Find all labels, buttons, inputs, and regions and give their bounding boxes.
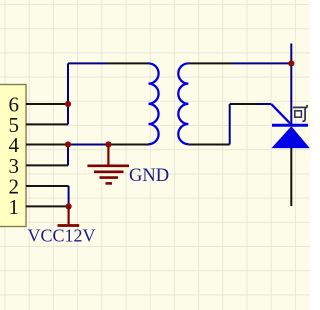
ground symbol bar 3 xyxy=(100,176,119,179)
wire anode vertical top xyxy=(290,44,292,126)
thyristor Q1 cathode bar xyxy=(272,124,308,127)
annotation text 可 (drawn strokes) xyxy=(293,105,307,122)
svg-text:GND: GND xyxy=(129,166,169,186)
junction dot pin1 xyxy=(66,203,72,209)
transformer T1 primary winding xyxy=(149,63,159,144)
transformer T1 primary pin bottom xyxy=(108,144,148,146)
transformer T1 secondary winding xyxy=(178,63,188,144)
pin 5 lead xyxy=(26,123,68,125)
wire vertical pins 6-5 to primary top xyxy=(67,63,69,124)
ground symbol bar 2 xyxy=(94,171,124,174)
svg-text:1: 1 xyxy=(9,195,20,219)
pin 2 lead xyxy=(26,185,69,187)
connector J1 body xyxy=(0,85,26,227)
svg-text:VCC12V: VCC12V xyxy=(28,226,96,246)
ground symbol bar 4 xyxy=(106,182,113,185)
junction dot pin6 xyxy=(65,101,71,107)
pin 3 lead xyxy=(26,164,68,166)
wire pin4 to ground junction xyxy=(68,144,108,146)
transformer T1 secondary pin top xyxy=(188,62,232,64)
ground symbol bar 1 xyxy=(87,165,129,168)
thyristor Q1 gate diagonal xyxy=(271,104,291,124)
power symbol VCC stem xyxy=(67,206,69,224)
pin 6 lead xyxy=(26,103,68,105)
wire primary top horizontal xyxy=(68,62,106,64)
junction dot anode xyxy=(288,60,294,66)
pin 1 lead xyxy=(26,205,69,207)
thyristor Q1 triangle xyxy=(273,127,309,148)
junction dot pin4 xyxy=(65,141,71,147)
junction dot ground xyxy=(105,141,111,147)
wire gate horizontal blue part xyxy=(258,103,272,105)
pin 4 lead xyxy=(26,144,68,146)
wire pin2 to pin1 vertical xyxy=(68,186,70,206)
thyristor Q1 bottom pin xyxy=(290,148,292,206)
wire gate horizontal xyxy=(230,103,258,105)
power symbol VCC bar xyxy=(58,224,80,227)
wire gate step vertical xyxy=(229,104,231,145)
ground symbol stem xyxy=(107,145,109,166)
transformer T1 secondary pin bottom xyxy=(188,144,229,146)
transformer T1 primary pin top xyxy=(106,62,149,64)
wire pins 4-3 vertical xyxy=(67,145,69,166)
wire secondary top to anode junction xyxy=(233,62,292,64)
